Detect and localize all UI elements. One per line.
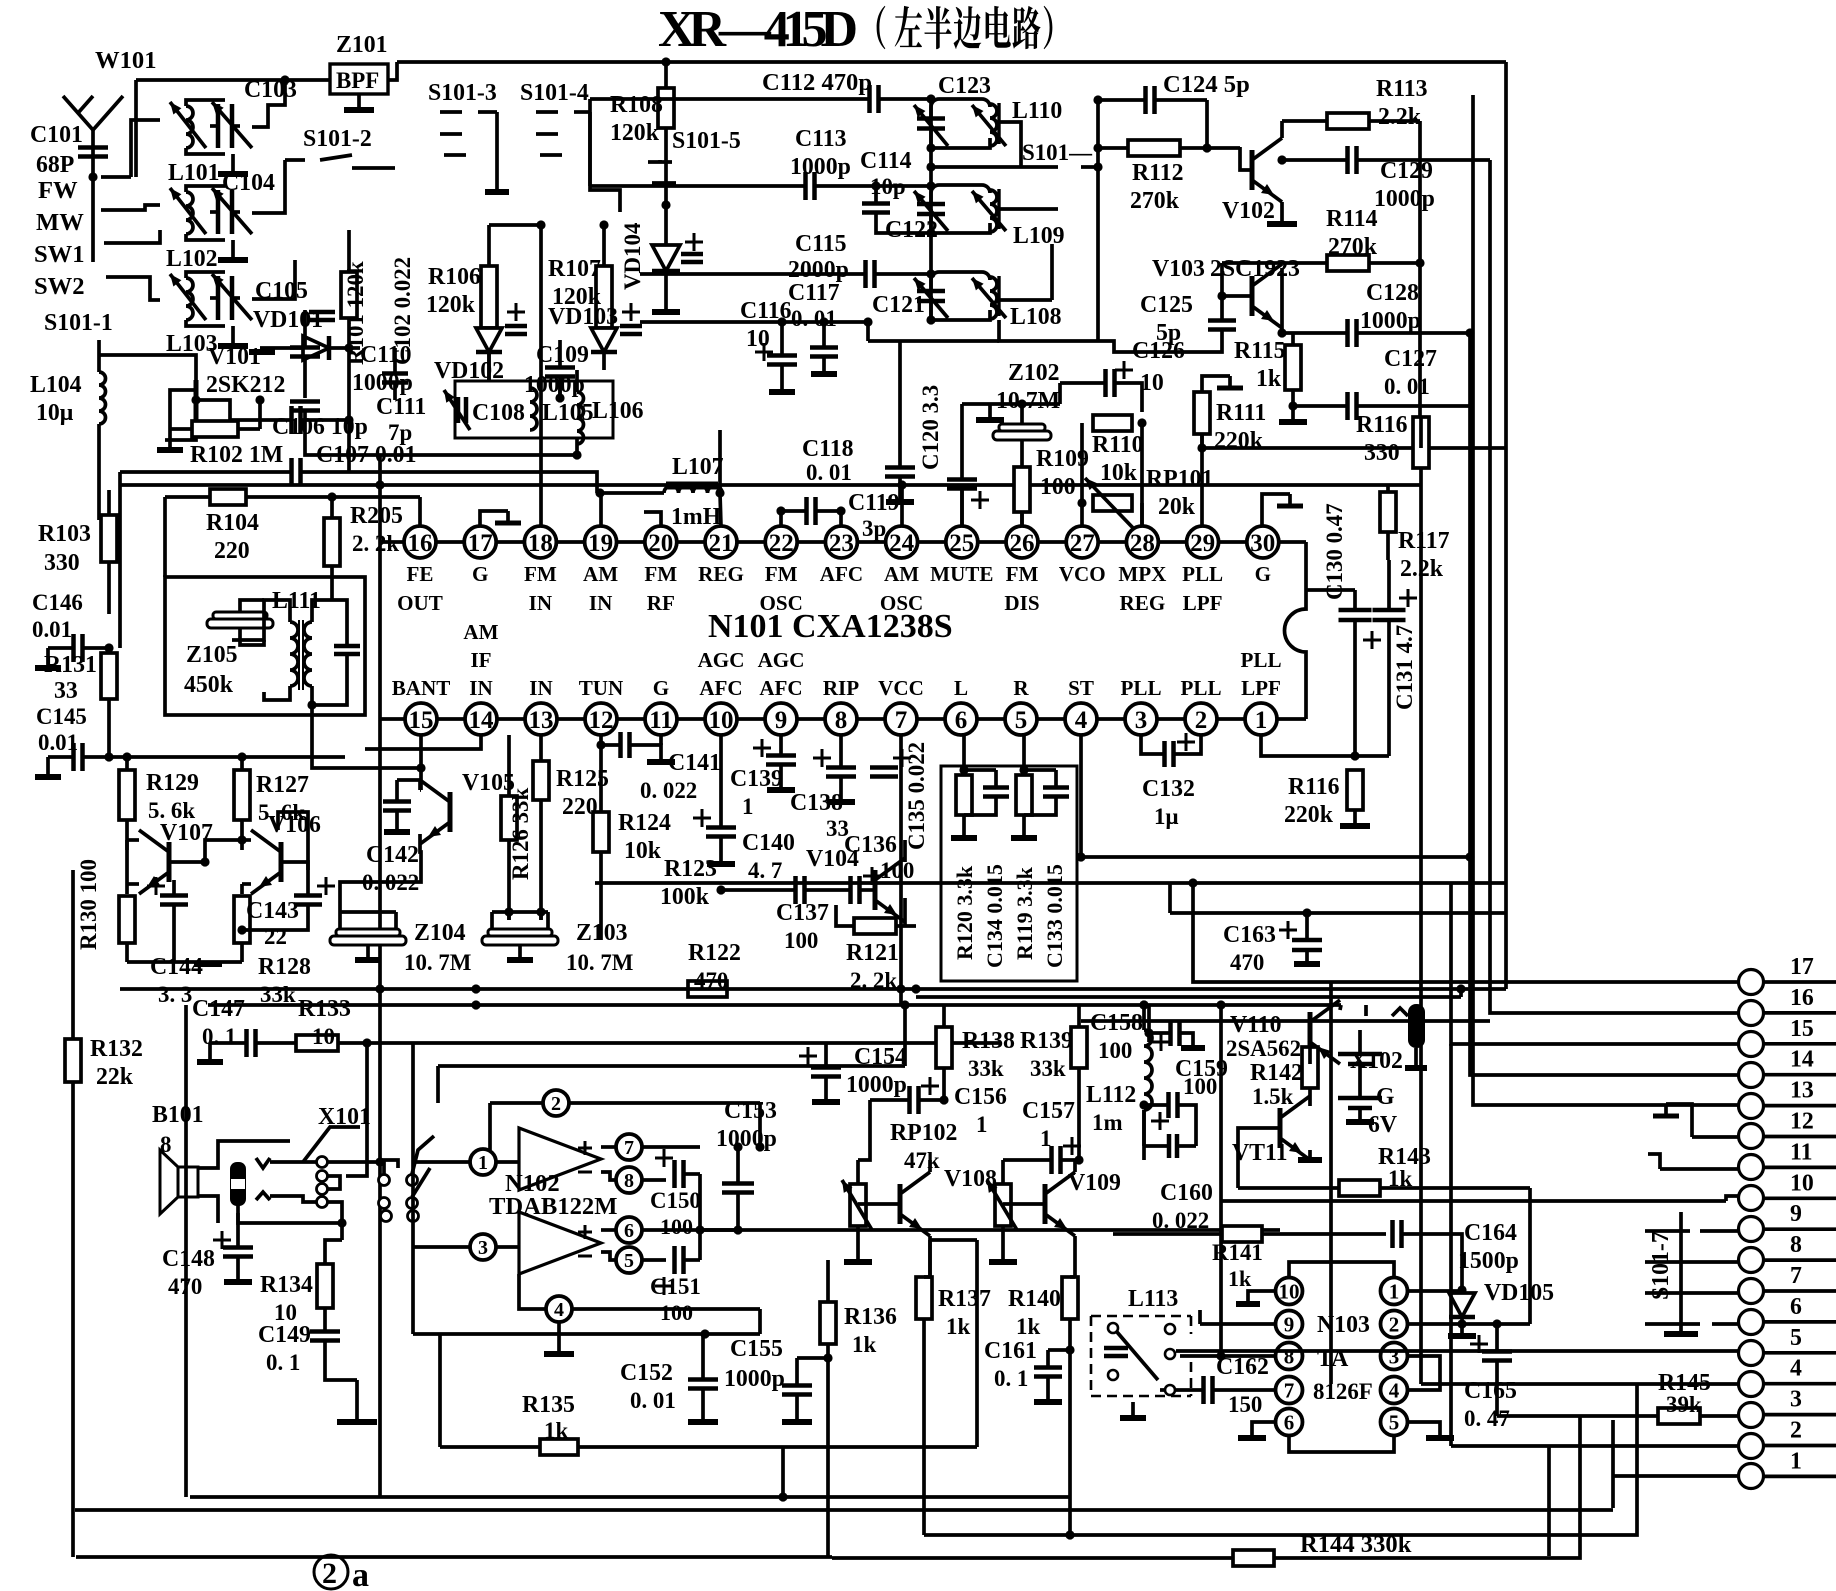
wire L111 down <box>312 705 421 768</box>
svg-text:10.7M: 10.7M <box>996 388 1060 414</box>
wire pin18 up <box>489 220 546 526</box>
svg-text:R142: R142 <box>1250 1060 1303 1086</box>
svg-text:3p: 3p <box>862 516 886 541</box>
ecap C140 4.7 <box>693 735 795 883</box>
resistor R113 2.2k <box>1282 76 1428 130</box>
pot RP101 20k <box>1085 466 1213 530</box>
svg-text:150: 150 <box>1228 1392 1262 1417</box>
capacitor C147 0.1 <box>192 996 296 1062</box>
inductor L106 <box>577 370 644 455</box>
IC N103 labels <box>1313 1312 1373 1404</box>
wire y1508 <box>75 1508 1613 1512</box>
ground pin17 <box>480 511 521 527</box>
svg-text:RP102: RP102 <box>890 1120 957 1146</box>
capacitor C119 3p <box>776 490 899 541</box>
svg-text:C148: C148 <box>162 1246 215 1272</box>
capacitor L111 tune <box>312 592 360 705</box>
box Z105 L111 <box>165 577 365 715</box>
filter Z101 <box>330 32 388 94</box>
wire y448 <box>1197 443 1505 452</box>
wire V103 col <box>1277 263 1286 338</box>
svg-text:2: 2 <box>1195 707 1208 734</box>
svg-text:47k: 47k <box>904 1148 940 1173</box>
capacitor C160 0.022 <box>1144 1110 1213 1233</box>
battery X102 G 6V <box>1338 1030 1403 1138</box>
wire band SW1 <box>134 230 160 243</box>
svg-text:MUTE: MUTE <box>930 562 993 586</box>
varcap C108 <box>444 390 525 430</box>
wire conn11 <box>1648 1154 1738 1169</box>
transistor V102 <box>1222 138 1282 224</box>
svg-text:39k: 39k <box>1666 1392 1702 1417</box>
capacitor C161 0.1 <box>984 1338 1075 1402</box>
svg-text:R134: R134 <box>260 1272 313 1298</box>
wire pin7 down <box>896 735 905 1005</box>
svg-text:L108: L108 <box>1010 304 1062 330</box>
switch S101-5 <box>648 160 676 183</box>
svg-text:5: 5 <box>624 1250 634 1272</box>
resistor R111 220k <box>1194 376 1266 454</box>
bus v 1473 <box>1473 95 1738 1105</box>
connector pad 4 <box>1739 1356 1836 1397</box>
svg-text:R119 3.3k: R119 3.3k <box>1012 866 1037 960</box>
wire speaker common <box>238 1213 347 1228</box>
svg-text:R116: R116 <box>1288 774 1340 800</box>
svg-text:C156: C156 <box>954 1084 1007 1110</box>
wire C150 join <box>695 1174 742 1260</box>
varactor VD101 <box>249 312 360 360</box>
wire verticals bottom <box>781 1447 785 1497</box>
svg-text:C143: C143 <box>246 898 299 924</box>
svg-text:100k: 100k <box>660 884 710 910</box>
wire pin10 col <box>719 733 723 737</box>
IC N101 right edge <box>1285 542 1307 719</box>
svg-text:R123: R123 <box>664 856 717 882</box>
svg-text:S101-2: S101-2 <box>303 126 372 152</box>
label MW <box>36 209 84 236</box>
connector pad 16 <box>1739 985 1836 1026</box>
wire y1043b <box>420 1041 1000 1045</box>
svg-text:LPF: LPF <box>1241 676 1281 700</box>
svg-text:R120 3.3k: R120 3.3k <box>952 865 977 960</box>
tuner L103 C105 <box>170 272 252 326</box>
ecap C154 1000p <box>799 1043 907 1102</box>
svg-text:1: 1 <box>1040 1126 1051 1151</box>
svg-text:PLL: PLL <box>1120 676 1161 700</box>
svg-text:XR—415D: XR—415D <box>658 1 858 58</box>
resistor R114 270k <box>1222 206 1425 271</box>
wire tuner1 out <box>252 75 290 127</box>
svg-text:6: 6 <box>1284 1411 1295 1435</box>
IC pin 9 <box>758 648 805 735</box>
svg-text:10. 7M: 10. 7M <box>566 950 633 975</box>
svg-text:4. 7: 4. 7 <box>748 858 782 883</box>
svg-text:TDAB122M: TDAB122M <box>489 1193 617 1220</box>
wire y1558 r <box>832 1415 1580 1558</box>
svg-text:1000p: 1000p <box>716 1126 777 1152</box>
connector pad 8 <box>1739 1232 1836 1272</box>
svg-text:1k: 1k <box>1228 1266 1252 1291</box>
svg-text:R131: R131 <box>44 652 97 678</box>
wire v106 out <box>278 812 308 870</box>
connector pad 3 <box>1739 1387 1836 1428</box>
label V104 <box>806 846 859 872</box>
wire pin26 up <box>1020 512 1024 526</box>
N103 pin 2 <box>1381 1311 1408 1338</box>
svg-text:0. 022: 0. 022 <box>1152 1208 1209 1233</box>
wire z104 links <box>340 907 548 920</box>
capacitor C125 5p <box>1140 292 1236 352</box>
svg-text:R107: R107 <box>548 256 601 282</box>
wire L108 tap <box>999 298 1052 302</box>
transistor V107 <box>139 820 213 894</box>
transistor V109 <box>1003 1160 1121 1277</box>
wire conn14 <box>1470 857 1738 1075</box>
svg-text:G: G <box>472 562 488 586</box>
ground Z101 <box>344 94 374 110</box>
capacitor C109 1000p <box>524 340 589 398</box>
resistor R141 1k <box>1212 1226 1386 1291</box>
capacitor C116 <box>755 317 797 392</box>
wire C137 <box>776 876 829 953</box>
wire pin14 down <box>365 735 481 749</box>
resistor R144 330k <box>1233 1531 1412 1566</box>
svg-text:C110: C110 <box>360 342 412 368</box>
svg-text:7: 7 <box>624 1137 634 1159</box>
label C121 <box>872 292 925 318</box>
bus v 1456 <box>1468 333 1472 857</box>
wire conn5 <box>1176 1349 1738 1353</box>
svg-text:R121: R121 <box>846 940 899 966</box>
svg-text:14: 14 <box>469 707 495 734</box>
svg-text:S101-3: S101-3 <box>428 80 497 106</box>
label W101 <box>95 47 156 74</box>
label C104 <box>222 170 275 196</box>
svg-text:29: 29 <box>1190 530 1215 557</box>
svg-text:Z104: Z104 <box>414 920 466 946</box>
svg-text:V110: V110 <box>1230 1012 1282 1038</box>
wire y1021 <box>1081 1019 1490 1023</box>
svg-text:V104: V104 <box>806 846 859 872</box>
wire pin30 loop <box>1262 494 1303 526</box>
IC pin 26 <box>1004 526 1039 615</box>
ecap C138 33 <box>790 735 856 841</box>
svg-text:R103: R103 <box>38 521 91 547</box>
crystal Z103 10.7M <box>482 912 633 975</box>
N103 top link <box>1289 1262 1394 1277</box>
svg-text:IN: IN <box>469 676 492 700</box>
antenna W101 <box>63 96 123 262</box>
svg-text:C165: C165 <box>1464 1378 1517 1404</box>
resistor R119 3.3k <box>1012 775 1037 960</box>
label C123 <box>938 73 991 99</box>
svg-text:RIP: RIP <box>823 676 859 700</box>
svg-text:R122: R122 <box>688 940 741 966</box>
IC pin 28 <box>1118 526 1166 615</box>
svg-text:18: 18 <box>528 530 553 557</box>
capacitor C118 0.01 <box>802 341 915 502</box>
label C102 0.022 <box>390 257 415 365</box>
ecap C139 1 <box>730 735 796 819</box>
connector pad 10 <box>1739 1170 1836 1210</box>
resistor R135 1k <box>440 1240 977 1455</box>
amp pin2 <box>490 1090 765 1152</box>
speaker B101 <box>152 1102 204 1214</box>
svg-text:C125: C125 <box>1140 292 1193 318</box>
wire R136 down <box>826 1358 830 1558</box>
wire L109-L108 switch <box>1050 244 1054 300</box>
svg-text:C106 10p: C106 10p <box>272 414 368 440</box>
IC pin 21 <box>698 526 744 586</box>
ecap C150 100 <box>650 1149 701 1239</box>
resistor R129 5.6k <box>119 757 199 850</box>
capacitor C115 2000p <box>640 231 931 288</box>
resistor R104 220 <box>165 489 420 577</box>
bus v1331 <box>1329 982 1333 1384</box>
svg-text:AFC: AFC <box>699 676 742 700</box>
label S101-4 <box>520 80 589 106</box>
wires R120 block <box>951 735 1056 838</box>
svg-text:2: 2 <box>1389 1313 1400 1337</box>
svg-text:0. 1: 0. 1 <box>202 1024 236 1049</box>
wire left drop <box>118 472 122 648</box>
IC pin 22 <box>760 526 803 615</box>
wire tuner3 out <box>252 260 295 299</box>
label VD101 <box>253 307 323 333</box>
svg-text:14: 14 <box>1790 1047 1814 1073</box>
ecap C143 22 <box>237 870 335 949</box>
connector pad 1 <box>1739 1448 1836 1488</box>
svg-text:R127: R127 <box>256 772 309 798</box>
svg-text:1m: 1m <box>1092 1110 1123 1135</box>
svg-text:C162: C162 <box>1216 1354 1269 1380</box>
amp N102 tri2 <box>519 1212 601 1274</box>
svg-text:9: 9 <box>1284 1313 1295 1337</box>
svg-text:FM: FM <box>1006 562 1039 586</box>
svg-text:AM: AM <box>884 562 919 586</box>
svg-text:1μ: 1μ <box>1154 804 1178 829</box>
svg-text:C153: C153 <box>724 1098 777 1124</box>
svg-text:L107: L107 <box>672 454 724 480</box>
svg-text:R138: R138 <box>962 1028 1015 1054</box>
resistor R106 120k <box>426 225 497 328</box>
capacitor C146 0.01 <box>32 590 114 668</box>
svg-text:R124: R124 <box>618 810 671 836</box>
svg-text:10: 10 <box>312 1024 335 1049</box>
resistor R110 10k <box>1092 415 1144 486</box>
svg-text:R102 1M: R102 1M <box>190 442 283 468</box>
svg-text:C133 0.015: C133 0.015 <box>1042 864 1067 968</box>
svg-text:0. 022: 0. 022 <box>362 870 419 895</box>
bus v 1423 <box>1421 1382 1738 1386</box>
wire R141 y1234 <box>1113 1232 1222 1236</box>
wire C130 top <box>1306 588 1355 592</box>
capacitor C126 +10 <box>1060 338 1185 412</box>
svg-text:C127: C127 <box>1384 346 1437 372</box>
capacitor C107 0.01 <box>120 442 597 493</box>
connector pad 13 <box>1739 1078 1836 1119</box>
tuner gang C121 L108 <box>914 272 1006 320</box>
wire bottom border <box>76 1555 832 1559</box>
bus v 1461 <box>1459 989 1463 997</box>
wire pin29 up <box>1200 434 1204 526</box>
resistor R122 470 <box>688 940 741 997</box>
svg-text:AGC: AGC <box>698 648 745 672</box>
bus v 1451 <box>1451 883 1738 1044</box>
wire vd104 top <box>661 200 670 228</box>
svg-text:5: 5 <box>1015 707 1028 734</box>
N103 pin6 gnd <box>1238 1422 1394 1452</box>
svg-text:L106: L106 <box>592 398 644 424</box>
svg-text:VCC: VCC <box>878 676 924 700</box>
resistor R117 2.2k <box>1380 485 1450 582</box>
diode VD102 <box>434 303 527 384</box>
svg-text:4: 4 <box>554 1299 564 1321</box>
label L101 <box>168 160 220 186</box>
svg-text:220k: 220k <box>1214 428 1264 454</box>
switch S101-2 <box>285 155 395 168</box>
svg-text:470: 470 <box>1230 950 1264 975</box>
IC pin 3 <box>1120 676 1161 735</box>
wire L110 tap <box>999 122 1021 167</box>
wire long mid <box>120 483 1420 487</box>
resistor R139 33k <box>1020 1005 1087 1160</box>
resistor R107 120k <box>548 220 612 328</box>
label C103 <box>244 77 297 103</box>
conn stub 7 <box>1645 1291 1738 1295</box>
svg-text:1: 1 <box>1790 1448 1802 1474</box>
capacitor C106 10p <box>230 348 368 472</box>
resistor R130 100 <box>76 859 135 962</box>
capacitor C113 <box>590 172 931 200</box>
svg-text:1k: 1k <box>544 1418 568 1443</box>
crystal Z104 10.7M <box>330 912 471 975</box>
svg-text:11: 11 <box>649 707 673 734</box>
band select stubs <box>88 172 136 277</box>
resistor R120 3.3k <box>952 775 977 960</box>
svg-text:24: 24 <box>889 530 915 557</box>
svg-text:Z105: Z105 <box>186 642 238 668</box>
wire V102 col <box>1280 121 1284 138</box>
resistor R140 1k <box>1008 1277 1078 1531</box>
capacitor C134 0.015 <box>982 788 1009 969</box>
svg-text:R106: R106 <box>428 264 481 290</box>
svg-text:13: 13 <box>1790 1078 1814 1104</box>
svg-text:AFC: AFC <box>759 676 802 700</box>
svg-text:V106: V106 <box>268 812 321 838</box>
ecap C156 1 <box>870 1077 1007 1137</box>
capacitor C101 <box>30 122 108 178</box>
svg-text:C132: C132 <box>1142 776 1195 802</box>
label SW2 <box>34 273 85 300</box>
svg-text:100: 100 <box>660 1300 693 1325</box>
svg-text:8: 8 <box>835 707 848 734</box>
svg-text:1000p: 1000p <box>846 1072 907 1098</box>
IC pin 11 <box>645 676 677 735</box>
wire conn2 <box>1451 1044 1738 1446</box>
IC pin 30 <box>1247 526 1279 586</box>
svg-text:R104: R104 <box>206 510 259 536</box>
svg-text:9: 9 <box>775 707 788 734</box>
wire pin27 up <box>1080 503 1084 526</box>
ecap C148 470 <box>162 1204 253 1299</box>
svg-text:2: 2 <box>551 1093 561 1115</box>
resistor R143 1k <box>1238 1144 1530 1196</box>
N103 pin 8 <box>1276 1343 1303 1370</box>
capacitor C129 1000p <box>1277 146 1490 212</box>
speaker frame <box>199 1141 290 1223</box>
box C108 L105 <box>455 381 613 438</box>
svg-text:R137: R137 <box>938 1286 991 1312</box>
capacitor C117 0.01 <box>640 280 999 374</box>
svg-text:a: a <box>352 1557 369 1591</box>
IC pin 29 <box>1182 526 1223 615</box>
svg-text:VD104: VD104 <box>620 222 645 290</box>
svg-text:C101: C101 <box>30 122 83 148</box>
svg-text:1500p: 1500p <box>1458 1248 1519 1274</box>
label S101-3 <box>428 80 497 106</box>
svg-text:8: 8 <box>1284 1345 1295 1369</box>
wire R112 feed <box>1098 146 1128 150</box>
jack X102 plug <box>1366 1004 1427 1068</box>
svg-text:2.2k: 2.2k <box>1378 104 1422 130</box>
svg-text:0. 47: 0. 47 <box>1464 1406 1510 1431</box>
svg-text:6: 6 <box>624 1220 634 1242</box>
svg-text:12: 12 <box>589 707 614 734</box>
svg-text:FW: FW <box>38 177 78 204</box>
svg-text:ST: ST <box>1068 676 1094 700</box>
svg-text:2SA562: 2SA562 <box>1226 1036 1301 1061</box>
svg-text:0.01: 0.01 <box>32 617 72 642</box>
capacitor C114 10p <box>860 148 931 233</box>
tuner L102 C104 <box>170 186 252 240</box>
capacitor C102 <box>382 348 408 400</box>
switch S101-7 <box>1660 1212 1698 1334</box>
amp pin1 <box>413 1149 519 1175</box>
resistor R127 5.6k <box>234 757 309 850</box>
amp pin7 <box>601 1134 700 1160</box>
svg-text:10: 10 <box>709 707 734 734</box>
resistor R205 2.2k <box>324 497 403 592</box>
connector pad 5 <box>1739 1325 1836 1366</box>
IC pin 25 <box>930 526 993 586</box>
wire N102 top <box>438 1000 910 1103</box>
amp pin8 <box>601 1167 666 1193</box>
svg-text:5: 5 <box>1790 1325 1802 1351</box>
wire tuner left vertical <box>926 94 935 324</box>
resonator Z105 450k <box>184 600 273 698</box>
label circled 2a <box>314 1555 369 1591</box>
connector pad 2 <box>1739 1418 1836 1459</box>
svg-text:220k: 220k <box>1284 802 1334 828</box>
svg-text:R110: R110 <box>1092 432 1144 458</box>
capacitor C120 3.3 <box>918 385 989 528</box>
IC pin 6 <box>945 676 977 735</box>
IC N101 top rail <box>379 540 1306 544</box>
svg-text:16: 16 <box>408 530 433 557</box>
svg-text:270k: 270k <box>1130 188 1180 214</box>
wire R123 wire <box>716 885 850 894</box>
wire y857 <box>1077 852 1475 861</box>
svg-text:1: 1 <box>1389 1280 1400 1304</box>
svg-text:1.5k: 1.5k <box>1252 1084 1294 1109</box>
svg-text:AM: AM <box>463 620 498 644</box>
transistor V101 2SK212 <box>165 344 285 440</box>
svg-text:19: 19 <box>588 530 613 557</box>
capacitor C158 100 <box>1090 1005 1205 1063</box>
svg-text:L110: L110 <box>1012 98 1062 124</box>
svg-text:PLL: PLL <box>1240 648 1281 672</box>
